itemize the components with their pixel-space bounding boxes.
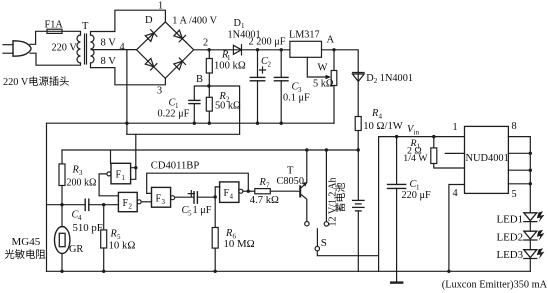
pin stub nc: [445, 152, 464, 154]
gate F1: [111, 163, 131, 184]
junction R4 battery: [357, 148, 360, 151]
bridge diode bottom-left: [145, 58, 157, 70]
svg-text:LED3: LED3: [497, 249, 524, 261]
svg-text:W: W: [318, 63, 328, 74]
svg-text:4: 4: [230, 193, 234, 201]
resistor R3 200k: [61, 150, 63, 164]
wire switch return to Vin corner: [317, 137, 378, 272]
svg-text:5 kΩ: 5 kΩ: [313, 79, 334, 90]
wire secondary top tap to bridge node 1: [91, 10, 166, 35]
junction center tap: [125, 122, 128, 125]
junction node B: [207, 84, 210, 87]
wire pin 4 to bottom rail: [449, 185, 465, 272]
bridge diode top-right: [173, 30, 185, 42]
svg-text:D1: D1: [234, 18, 245, 30]
svg-text:1 μF: 1 μF: [193, 205, 212, 216]
left rail: [46, 123, 48, 271]
svg-text:8 V: 8 V: [101, 56, 117, 67]
capacitor C1 0.22uF: [189, 99, 200, 101]
junction F4 output: [247, 190, 250, 193]
junction R3 GR C4: [60, 203, 63, 206]
capacitor C3 0.1uF: [280, 50, 282, 78]
svg-text:蓄电池: 蓄电池: [334, 183, 347, 213]
svg-text:7: 7: [266, 182, 270, 190]
regulator LM317: [290, 41, 322, 57]
battery 12V: [357, 150, 359, 200]
wire secondary center tap to node 4: [91, 50, 137, 135]
capacitor C1 220uF: [395, 135, 398, 138]
svg-text:MG45: MG45: [12, 236, 41, 248]
svg-text:0.1 μF: 0.1 μF: [283, 93, 310, 104]
wire C4 line: [47, 204, 119, 206]
switch S terminal 1: [305, 222, 309, 226]
wire secondary bottom tap to bridge node 3: [91, 63, 166, 85]
switch S terminal 2: [325, 150, 327, 222]
IC NUD4001: [465, 126, 509, 193]
junction C4 R5 F2: [102, 203, 105, 206]
svg-text:NUD4001: NUD4001: [466, 153, 509, 164]
diode D2: [357, 72, 359, 150]
svg-text:CD4011BP: CD4011BP: [151, 160, 200, 171]
svg-text:2 200 μF: 2 200 μF: [249, 37, 286, 48]
svg-text:LM317: LM317: [289, 29, 320, 40]
gate F4: [220, 182, 239, 203]
wire NUD right pin d: [508, 183, 530, 185]
wire Vin rail: [379, 136, 465, 138]
svg-text:100 kΩ: 100 kΩ: [214, 60, 246, 71]
bridge diode top-left: [145, 30, 157, 42]
wire plug to transformer primary bottom: [30, 53, 81, 65]
wire F1 output to F2: [99, 174, 118, 196]
svg-text:T: T: [287, 166, 294, 177]
svg-text:10 Ω/1W: 10 Ω/1W: [363, 120, 404, 132]
junction switch drop: [325, 148, 328, 151]
svg-text:8: 8: [512, 121, 517, 132]
transformer core: [84, 34, 86, 64]
svg-text:LED2: LED2: [497, 232, 524, 244]
wire F3 output to C5: [175, 196, 194, 198]
svg-text:T: T: [82, 21, 89, 32]
wire plug to fuse to transformer primary top: [30, 31, 81, 44]
bridge diode bottom-right: [173, 58, 185, 70]
capacitor C4 510pF: [84, 199, 86, 210]
junction C1 bottom: [193, 122, 196, 125]
switch S pole: [315, 246, 319, 250]
svg-text:4.7 kΩ: 4.7 kΩ: [250, 195, 279, 206]
svg-text:A: A: [327, 35, 335, 46]
bottom rail: [47, 270, 531, 272]
svg-text:2: 2: [268, 61, 272, 69]
transistor T C8050: [299, 186, 301, 196]
junction C2 top: [256, 48, 259, 51]
LED1: [524, 213, 537, 222]
svg-text:1 A /400 V: 1 A /400 V: [172, 16, 217, 27]
svg-text:8 V: 8 V: [101, 37, 117, 48]
wire node B to C1 and feedback loop: [127, 86, 240, 134]
junction C3 top: [280, 48, 283, 51]
svg-text:3: 3: [79, 169, 83, 177]
gate F3: [152, 187, 171, 207]
capacitor C5 1uF: [193, 192, 195, 203]
wire F1 top stub: [110, 150, 112, 163]
resistor R6 10M: [214, 197, 216, 227]
svg-text:(Luxcon Emitter)350 mA: (Luxcon Emitter)350 mA: [442, 279, 548, 290]
svg-text:D: D: [145, 15, 153, 26]
capacitor C2 2200uF: [257, 50, 259, 78]
bridge rectifier diamond: [137, 22, 194, 78]
resistor R1 100k: [208, 50, 210, 59]
transformer T primary winding: [77, 35, 80, 63]
junction C2 bottom: [256, 122, 259, 125]
svg-text:B: B: [196, 74, 203, 85]
junction R2 bottom: [208, 122, 211, 125]
junction collector: [305, 148, 308, 151]
label plus C5: [188, 191, 194, 197]
fuse F1A: [47, 29, 62, 33]
svg-text:10 kΩ: 10 kΩ: [109, 239, 136, 251]
svg-text:D2 1N4001: D2 1N4001: [366, 73, 413, 85]
wire F2 output to F3: [141, 201, 151, 203]
svg-text:GR: GR: [69, 244, 83, 255]
wire F1 inputs: [131, 134, 136, 179]
wire LM317 output to node A and down to D2: [322, 50, 359, 72]
rail Y1 ground mid: [47, 122, 335, 124]
wire feedback F4 to F3: [147, 173, 249, 193]
resistor R4 10ohm/1W: [355, 117, 361, 131]
wire main positive rail node2 to LM317: [194, 49, 290, 51]
svg-text:1: 1: [453, 122, 458, 133]
svg-text:4: 4: [78, 214, 82, 222]
LED2: [529, 222, 531, 232]
svg-text:3: 3: [157, 86, 162, 97]
resistor R7 4.7k: [250, 190, 255, 192]
svg-text:2: 2: [129, 203, 133, 211]
resistor R2 50k: [208, 86, 210, 97]
diode D1: [233, 45, 241, 55]
junction node A: [332, 48, 335, 51]
gate F2: [118, 192, 137, 211]
svg-text:50 kΩ: 50 kΩ: [215, 101, 241, 112]
svg-text:4: 4: [453, 188, 458, 199]
AC plug: [13, 41, 31, 56]
rail Y2 battery positive: [62, 149, 358, 151]
svg-text:1/4 W: 1/4 W: [403, 153, 428, 164]
transformer T secondary winding: [91, 35, 95, 63]
resistor R1 2ohm 1/4W: [432, 135, 435, 138]
svg-text:光敏电阻: 光敏电阻: [5, 248, 46, 261]
svg-text:1: 1: [158, 1, 163, 12]
svg-text:220 μF: 220 μF: [402, 190, 432, 201]
photoresistor GR: [61, 205, 63, 227]
svg-text:510 pF: 510 pF: [73, 222, 103, 234]
wire NUD right pin c: [508, 169, 530, 171]
LED3: [529, 240, 531, 250]
resistor R5 10k: [103, 205, 105, 230]
svg-text:C8050: C8050: [277, 176, 304, 187]
wire LED3 to bottom rail: [529, 259, 531, 272]
svg-text:F1A: F1A: [45, 20, 64, 31]
svg-text:200 kΩ: 200 kΩ: [67, 178, 97, 189]
svg-text:220 V: 220 V: [52, 43, 78, 54]
wire F4 inputs: [215, 187, 219, 197]
svg-text:5: 5: [188, 210, 192, 218]
label plus C2: [260, 67, 266, 73]
junction node 2: [207, 48, 210, 51]
svg-text:S: S: [321, 237, 327, 249]
svg-text:5: 5: [512, 189, 517, 200]
svg-text:220 V电源插头: 220 V电源插头: [3, 75, 69, 88]
svg-text:2: 2: [203, 38, 208, 49]
svg-text:0.22 μF: 0.22 μF: [158, 109, 190, 120]
ground: [391, 281, 402, 283]
junction C3 bottom: [280, 122, 283, 125]
svg-text:3: 3: [162, 198, 166, 206]
svg-text:1: 1: [122, 174, 126, 182]
potentiometer W 5k: [333, 50, 335, 71]
wire NUD right pin 8 bus: [508, 137, 530, 213]
svg-text:4: 4: [120, 42, 125, 53]
svg-text:10 MΩ: 10 MΩ: [224, 238, 255, 250]
wire LM317 ADJ to potentiometer wiper: [307, 57, 328, 77]
svg-text:in: in: [414, 129, 420, 137]
wire NUD right pin b: [508, 152, 530, 154]
svg-text:LED1: LED1: [497, 213, 524, 225]
